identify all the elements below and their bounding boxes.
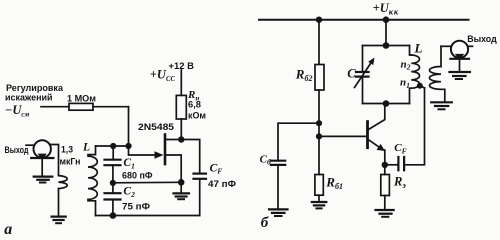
svg-text:Cб: Cб [260,153,271,166]
wire CF to tap [405,88,425,165]
svg-text:n2: n2 [401,58,411,71]
svg-text:Выход: Выход [5,145,29,156]
node dot Rb2 top [316,17,322,23]
wire Rb1 to ground [318,195,320,201]
wire circle to coupling coil [51,145,59,176]
svg-text:мкГн: мкГн [60,156,81,167]
svg-text:L: L [82,142,90,154]
connector pin right [455,54,464,61]
top rail of tank [96,145,129,147]
transformer secondary winding [440,46,442,66]
node dot gate corner [125,143,131,149]
resistor Rb2 [315,65,324,91]
node dot C1 top [110,143,116,149]
tank left branch lower [362,77,364,103]
svg-text:2N5485: 2N5485 [138,122,175,133]
svg-text:680 пФ: 680 пФ [122,171,153,182]
svg-text:кОм: кОм [188,111,206,122]
wire C1 to C2 [112,165,114,192]
connector center pin [38,154,47,161]
connector output circle [34,140,51,157]
svg-text:б: б [261,215,269,231]
ground under Rb1 [312,201,327,203]
svg-text:CF: CF [210,162,223,175]
gate wire [129,146,157,155]
wire Cb to ground [277,165,279,209]
tank top wire [363,45,410,47]
tank left branch upper [362,46,364,72]
wire Cb branch [278,123,319,160]
svg-text:Rб2: Rб2 [295,66,313,83]
wire rail to Rb2 [318,20,320,65]
BJT base bar Q2 [366,122,369,148]
ground under right connector [450,71,470,73]
wire CF to bottom rail [199,180,201,216]
emitter wire [369,140,383,150]
ground under coupling coil [52,216,66,218]
wire Vyhod text to circle [26,144,34,146]
wire emitter to CF [385,164,398,166]
JFET channel bar Q1 [164,135,167,165]
svg-text:Rэ: Rэ [393,174,406,190]
wire Rb2 down to Rb1 [318,90,320,175]
svg-text:47 пФ: 47 пФ [208,179,236,190]
connector ground stem [41,160,43,176]
resistor 1 MOm [69,103,93,110]
node dot C1C2 [110,180,116,186]
emitter arrowhead [377,144,385,151]
stub right of circle [468,45,473,47]
wire from -Ucm text to resistor R1 [41,106,69,108]
wire drain to CF corner [181,140,199,174]
node dot Cb branch [316,120,322,126]
capacitor C2 [105,192,121,194]
drain wire [165,139,181,141]
variable capacitor C plates [356,71,369,73]
node dot tank top rail [383,16,390,23]
svg-text:Выход: Выход [467,34,497,45]
tank right branch lower [410,88,412,103]
svg-text:а: а [4,221,12,237]
node dot bottom rail [110,212,117,219]
connector shield bar right [450,58,469,60]
wire drain up to Rn [180,119,182,140]
svg-text:C1: C1 [123,157,134,170]
inductor L right circuit [411,55,419,88]
wire emitter down [384,150,386,165]
svg-text:C2: C2 [123,186,135,199]
resistor Re [381,175,390,196]
connector shield bar [31,157,53,159]
svg-text:+Uкк: +Uкк [373,1,399,16]
output circle right [451,41,468,58]
capacitor Cb [271,160,285,162]
variable capacitor arrow [355,63,372,88]
node dot emitter [382,162,388,168]
tank right branch upper [410,46,412,56]
source wire [165,155,181,182]
ground under source [180,182,182,193]
top rail +Ukk [259,19,469,21]
ground under Cb [269,208,288,210]
svg-text:−Uсм: −Uсм [5,103,30,119]
svg-text:L: L [414,41,423,56]
wire source to C1C2 node [113,181,181,184]
svg-text:CF: CF [394,142,406,155]
svg-text:1 МОм: 1 МОм [67,94,96,105]
bottom rail [96,215,200,217]
wire emitter to Re [384,165,386,175]
resistor Rb1 [315,175,323,196]
wire Re to ground [384,196,386,210]
ground under secondary [431,101,452,103]
svg-text:+12 В: +12 В [169,61,195,72]
capacitor C1 [112,146,114,159]
node dot base branch [316,133,322,139]
tank bottom wire [363,103,410,105]
ground under Re [376,209,394,211]
svg-text:75 пФ: 75 пФ [122,201,150,212]
ground bars under connector [34,176,53,178]
wire down to gate rail [128,107,130,146]
svg-text:n1: n1 [400,77,410,90]
wire transformer to circle [441,45,451,47]
capacitor CF right circuit [397,157,399,170]
svg-text:C: C [347,67,356,81]
wire resistor to corner [93,106,129,108]
svg-text:6,8: 6,8 [188,100,202,111]
inductor L left circuit [88,146,96,155]
base wire [319,135,366,137]
wire C2 to bottom rail [112,200,114,216]
svg-text:Rб1: Rб1 [325,175,343,192]
node dot source [178,179,185,186]
node dot drain [178,136,184,142]
coupling coil 1,3 mkGn [59,176,68,189]
node dot tank bottom [383,100,390,107]
capacitor CF plates [194,173,207,175]
tap dot on coil [420,86,425,89]
wire Rn to +12V [180,70,182,95]
svg-text:1,3: 1,3 [61,144,73,155]
resistor Rn 6,8 kOm [176,95,186,119]
wire coil to ground [58,189,60,217]
gate arrowhead [155,151,164,158]
wire rail to tank [385,20,387,46]
node dot tank top [383,42,390,49]
stem to ground right connector [459,61,461,72]
collector wire [369,104,385,130]
